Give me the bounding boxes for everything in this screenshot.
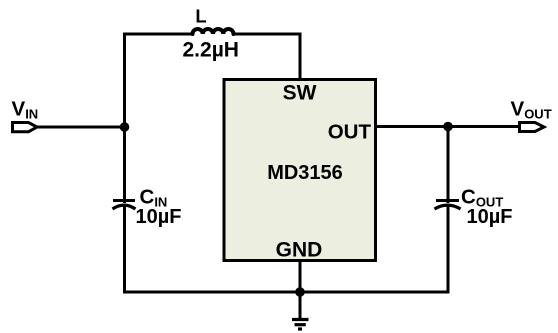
capacitor COUT <box>435 201 461 210</box>
node ground junction <box>295 287 305 297</box>
svg-text:OUT: OUT <box>328 121 372 144</box>
wire GND pin drop <box>299 260 302 292</box>
IC U1 MD3156 body <box>224 80 376 261</box>
capacitor CIN <box>113 201 136 210</box>
wire right vertical lower (below COUT to bottom rail) <box>447 206 450 294</box>
svg-text:10µF: 10µF <box>136 206 182 228</box>
wire right vertical upper (node to COUT) <box>447 127 450 204</box>
svg-text:VOUT: VOUT <box>511 98 552 122</box>
output connector VOUT <box>520 123 545 132</box>
wire bottom rail <box>123 291 450 294</box>
wire top rail right segment <box>234 33 302 36</box>
svg-text:L: L <box>195 6 206 27</box>
node input junction <box>120 122 130 132</box>
inductor L <box>193 29 234 34</box>
wire OUT node to VOUT connector <box>448 125 519 128</box>
wire input to node <box>37 126 125 129</box>
svg-text:VIN: VIN <box>12 98 39 122</box>
svg-text:GND: GND <box>276 239 323 262</box>
svg-text:2.2µH: 2.2µH <box>183 39 239 62</box>
wire top rail left segment <box>123 33 193 36</box>
wire left vertical lower (below CIN to bottom rail) <box>123 206 126 294</box>
svg-text:SW: SW <box>283 82 317 105</box>
wire SW drop <box>299 33 302 81</box>
node output junction <box>443 122 453 132</box>
svg-text:10µF: 10µF <box>467 206 513 228</box>
wire left vertical upper (node to top rail, through CIN top plate) <box>123 33 126 204</box>
wire OUT pin to output node <box>376 125 449 128</box>
ground <box>292 292 309 329</box>
input connector VIN <box>13 123 38 132</box>
svg-text:MD3156: MD3156 <box>267 162 343 184</box>
